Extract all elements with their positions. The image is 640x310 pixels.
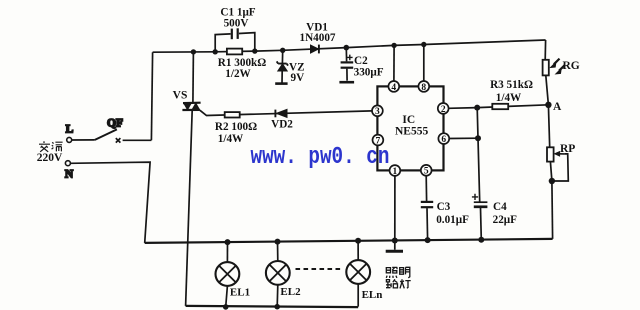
svg-text:A: A [553, 101, 562, 113]
terminal N [65, 161, 74, 181]
potentiometer RP [547, 105, 575, 239]
svg-text:EL1: EL1 [230, 286, 250, 298]
wire pin2 to node [449, 107, 478, 110]
svg-text:www. pw0. cn: www. pw0. cn [251, 143, 390, 171]
lamp EL2 [266, 239, 301, 310]
svg-text:VD2: VD2 [271, 119, 293, 131]
svg-text:4: 4 [391, 83, 396, 93]
label 交流 220V [37, 141, 63, 164]
svg-text:6: 6 [441, 135, 446, 145]
svg-text:R2 100Ω: R2 100Ω [215, 121, 257, 133]
lamp EL1 [216, 239, 251, 310]
svg-text:L: L [66, 124, 74, 136]
node junction C1 left [213, 49, 218, 54]
svg-text:1/4W: 1/4W [496, 92, 522, 104]
op-amp U1 IC NE555 body [377, 86, 443, 170]
diode VD1 1N4007 [299, 22, 335, 54]
resistor R1 [218, 49, 266, 80]
svg-text:RG: RG [563, 60, 580, 72]
label 照明 路灯 [386, 267, 411, 288]
svg-text:C1 1μF: C1 1μF [220, 6, 255, 18]
svg-text:QF: QF [107, 118, 123, 130]
pin 8 [418, 81, 429, 93]
svg-text:N: N [65, 168, 74, 180]
svg-text:VS: VS [173, 89, 188, 101]
wire pin4 riser [393, 45, 395, 81]
svg-text:EL2: EL2 [280, 286, 301, 298]
svg-text:1N4007: 1N4007 [299, 32, 335, 44]
terminal L [66, 124, 74, 143]
breaker QF [72, 118, 152, 143]
wire lamps bottom bus [186, 306, 359, 307]
svg-text:0.01μF: 0.01μF [436, 214, 469, 226]
svg-text:R3 51kΩ: R3 51kΩ [490, 79, 533, 91]
capacitor C3 [421, 176, 469, 243]
svg-text:1/4W: 1/4W [218, 133, 244, 145]
svg-text:500V: 500V [224, 18, 249, 30]
pin 5 [421, 165, 432, 177]
wire N line and drop [70, 162, 150, 243]
wire pin1 to ground [394, 176, 396, 250]
svg-text:5: 5 [424, 167, 429, 177]
wire dashed continuation [296, 268, 342, 270]
wire pin6 to node [449, 137, 478, 139]
watermark www.pw0.cn [251, 143, 390, 171]
pin 4 [388, 81, 399, 93]
pin 3 [372, 105, 383, 117]
resistor R2 [215, 112, 257, 145]
svg-text:330μF: 330μF [354, 66, 384, 78]
resistor R3 [477, 79, 548, 109]
node A [545, 101, 562, 113]
svg-text:1/2W: 1/2W [225, 68, 251, 80]
pin 6 [438, 133, 449, 145]
svg-text:3: 3 [375, 107, 380, 117]
wire VS gate to pin 3 [200, 110, 372, 115]
diode VD2 [271, 109, 293, 130]
zener VZ [275, 48, 304, 84]
svg-text:C4: C4 [493, 201, 507, 213]
svg-text:C3: C3 [437, 201, 451, 213]
svg-text:ELn: ELn [362, 289, 383, 301]
svg-text:NE555: NE555 [395, 126, 428, 138]
svg-text:8: 8 [421, 83, 426, 93]
ground [386, 250, 403, 253]
pin 1 [390, 165, 401, 177]
thyristor VS (triac) [173, 49, 201, 306]
svg-text:1: 1 [393, 167, 398, 177]
wire top rail L line [153, 40, 546, 52]
svg-text:220V: 220V [37, 152, 63, 164]
photoresistor RG [543, 40, 580, 105]
wire main bottom bus [145, 239, 553, 243]
wire pin8 riser [423, 45, 425, 82]
wire QF riser [151, 52, 152, 140]
pin 2 [438, 103, 449, 115]
node junction C1 right [252, 48, 257, 53]
svg-text:RP: RP [560, 143, 575, 155]
svg-text:22μF: 22μF [493, 214, 518, 226]
pin 7 [373, 135, 384, 147]
svg-text:IC: IC [402, 114, 415, 126]
capacitor C1 [215, 6, 256, 51]
wire node 2-6-C4 vertical [477, 108, 480, 202]
svg-text:2: 2 [441, 105, 446, 115]
svg-text:C2: C2 [354, 55, 368, 67]
capacitor C2 [339, 45, 383, 82]
lamp ELn [346, 238, 382, 307]
svg-text:9V: 9V [291, 72, 305, 84]
capacitor C4 [472, 194, 517, 243]
